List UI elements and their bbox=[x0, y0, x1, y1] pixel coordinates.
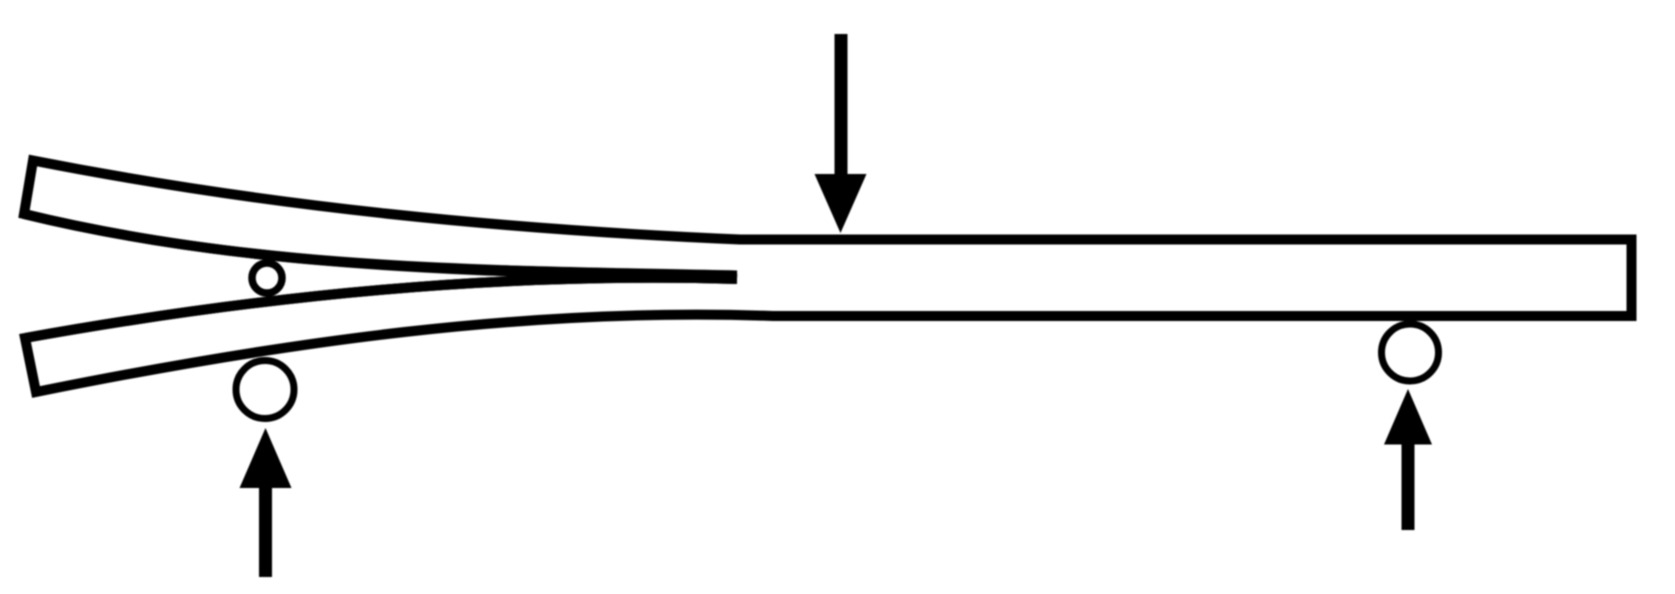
roller left support (below lower arm) bbox=[236, 361, 294, 419]
specimen beam outline (split laminate with crack slit) bbox=[24, 161, 1632, 393]
crack lower face (lower arm top edge, blunt tip) bbox=[25, 278, 737, 338]
load arrow down (top centre) bbox=[815, 34, 867, 233]
roller right support (below beam) bbox=[1382, 324, 1439, 381]
reaction arrow up (left support) bbox=[240, 428, 292, 577]
reaction arrow up (right support) bbox=[1384, 389, 1432, 530]
crack upper face (upper arm bottom edge, blunt tip) bbox=[24, 214, 737, 276]
roller small (crack-opening roller between arms) bbox=[252, 263, 282, 293]
